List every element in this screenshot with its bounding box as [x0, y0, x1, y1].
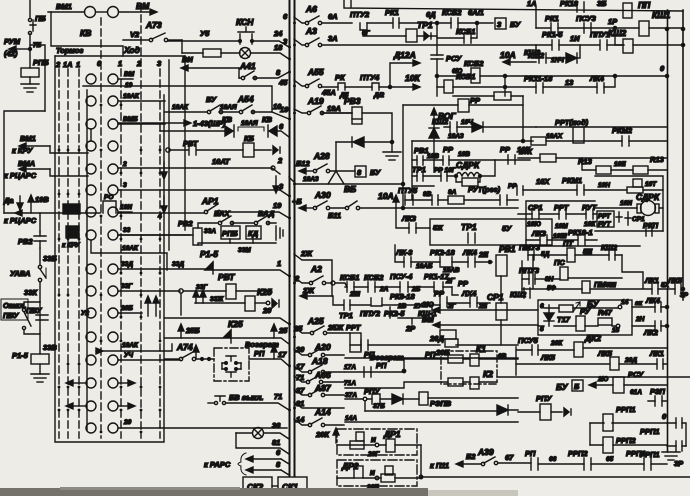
relay РВ2 [193, 228, 202, 245]
svg-text:33А: 33А [204, 228, 216, 235]
svg-text:24: 24 [273, 29, 283, 38]
box СК1 [278, 477, 307, 494]
svg-text:РК18-1: РК18-1 [568, 228, 593, 237]
contact ЛК4 [597, 83, 604, 93]
wire 14А row [345, 421, 518, 423]
contact КСБ2 [368, 282, 375, 292]
svg-text:А2: А2 [310, 264, 322, 274]
relay СР1 [496, 303, 507, 320]
switch А28 [313, 164, 355, 173]
svg-text:ТР1: ТР1 [339, 311, 353, 320]
wire [667, 423, 686, 446]
contact РКП [646, 226, 652, 236]
svg-text:19: 19 [280, 105, 289, 114]
svg-text:Б: Б [574, 382, 580, 391]
svg-text:3: 3 [123, 182, 127, 189]
svg-text:10А: 10А [500, 50, 516, 60]
contact ППУ3 [529, 274, 535, 284]
svg-text:РР: РР [434, 289, 445, 298]
svg-text:5Ш: 5Ш [606, 282, 617, 289]
svg-text:10АТ: 10АТ [212, 157, 231, 166]
box РВ1 left edge [412, 141, 434, 196]
svg-text:10АБ: 10АБ [416, 263, 433, 270]
diode [472, 122, 536, 132]
relay ПС [560, 267, 568, 280]
svg-text:К2: К2 [483, 369, 493, 379]
contact ЛХ4 [470, 297, 477, 307]
svg-text:2: 2 [277, 156, 283, 165]
svg-text:1А: 1А [527, 0, 537, 8]
capacitor РСУ [431, 55, 443, 59]
svg-text:(42): (42) [4, 49, 18, 58]
motor СДРК [595, 201, 663, 216]
contact ЛК1 [657, 359, 663, 369]
svg-text:+Б: +Б [292, 197, 302, 206]
svg-text:КСБ1: КСБ1 [340, 273, 359, 282]
label Откл. [1, 299, 28, 320]
svg-text:А30: А30 [314, 190, 331, 200]
contact ЛК2 [655, 321, 661, 331]
svg-text:РК8-18: РК8-18 [390, 292, 415, 301]
svg-text:КД: КД [248, 229, 259, 238]
svg-text:10АК: 10АК [123, 93, 140, 100]
svg-text:РП: РП [254, 349, 265, 358]
box КВ [51, 12, 123, 56]
arrow up 25Б [178, 324, 184, 338]
node [613, 74, 616, 77]
contact КВ arc 1 [160, 125, 234, 137]
svg-text:25: 25 [293, 324, 303, 333]
diode [497, 405, 508, 415]
contact РУТ [586, 209, 593, 219]
box 3 БУ [495, 18, 506, 29]
svg-text:КСБ1: КСБ1 [456, 72, 475, 81]
arrow Б12 [299, 168, 313, 174]
wire к П11 row [421, 476, 690, 478]
svg-text:к КРУ: к КРУ [12, 146, 33, 155]
relay ДР2 [354, 466, 363, 478]
relay РРП2 [603, 437, 613, 453]
node 6Д [435, 21, 438, 24]
diode up [429, 128, 439, 138]
wire [399, 22, 451, 24]
svg-text:10А: 10А [378, 191, 394, 201]
svg-text:РКМ2: РКМ2 [612, 126, 633, 135]
svg-text:ЛК5: ЛК5 [597, 349, 613, 358]
svg-text:РУТ: РУТ [598, 221, 611, 228]
switch А14 row [294, 418, 344, 427]
wire 33Ж row [195, 302, 245, 304]
svg-text:Ход: Ход [123, 45, 140, 55]
arrow left row406 [66, 403, 86, 409]
svg-text:К1: К1 [476, 344, 486, 354]
arrow up 17 [271, 345, 277, 359]
pushbutton КСН [238, 27, 254, 44]
arrow up pair 20Б [145, 296, 159, 316]
svg-text:25Ж: 25Ж [327, 323, 344, 332]
svg-text:вк: вк [635, 300, 643, 307]
svg-text:КВ: КВ [80, 28, 91, 38]
svg-text:13: 13 [565, 78, 574, 87]
svg-text:А37: А37 [314, 383, 332, 393]
svg-text:2А: 2А [379, 286, 389, 293]
svg-text:17А: 17А [344, 364, 356, 371]
relay КБ [243, 143, 254, 157]
contact ПМУ3 [528, 250, 534, 260]
svg-text:А55: А55 [307, 67, 324, 77]
svg-text:10А3: 10А3 [303, 176, 319, 183]
contact РРП2 [584, 458, 591, 470]
box РРТ РУТ [597, 211, 614, 227]
dark label к КРУ [66, 226, 79, 238]
svg-text:А73: А73 [145, 20, 162, 30]
arrow 20К up [333, 428, 339, 443]
arrow к П11 [456, 461, 463, 467]
svg-text:2Г: 2Г [447, 303, 457, 310]
svg-text:5У: 5У [502, 224, 512, 233]
bracket РК2-5 КШ-1 [390, 307, 432, 324]
wire top link [595, 176, 663, 231]
svg-text:33Д: 33Д [172, 261, 184, 268]
svg-text:ВАХ: ВАХ [214, 209, 231, 218]
svg-text:к П11: к П11 [430, 461, 449, 470]
svg-text:3А: 3А [328, 34, 338, 43]
contact КВ arc 2 [268, 125, 277, 137]
contact СР1 [532, 209, 539, 219]
wire КШ2 row [536, 45, 539, 58]
svg-text:33К: 33К [24, 288, 38, 297]
relay РПУ [540, 404, 551, 420]
contact РО [103, 201, 116, 213]
contact РРП1 [644, 458, 651, 470]
node [479, 175, 482, 178]
wire РК1 ПСУ3 row [536, 27, 683, 29]
arrow right row406 [118, 403, 135, 409]
resistor [559, 305, 573, 312]
svg-text:РК1-5: РК1-5 [542, 30, 563, 39]
wire diode row [336, 141, 392, 143]
svg-text:10М: 10М [555, 223, 568, 230]
wire ЛК-3 row [395, 245, 492, 262]
svg-text:ЛК1: ЛК1 [644, 276, 659, 285]
svg-text:СР1: СР1 [487, 292, 504, 302]
block [350, 432, 364, 449]
contact РК1-17 [434, 282, 443, 292]
svg-text:ДР1: ДР1 [383, 429, 401, 439]
svg-text:2: 2 [55, 60, 61, 69]
svg-text:У2: У2 [81, 310, 89, 317]
ground [31, 374, 49, 382]
switch А37 row [294, 388, 344, 397]
switch А18 row [294, 365, 344, 374]
wire [345, 86, 372, 88]
wire РПУ row [345, 398, 518, 399]
wire [577, 45, 580, 58]
contact КШ2b [524, 288, 530, 298]
svg-text:1-43(ШР): 1-43(ШР) [193, 119, 226, 128]
svg-text:19В: 19В [35, 195, 49, 204]
contact ПСУ5 [532, 345, 538, 355]
svg-text:РСУ: РСУ [628, 370, 644, 379]
svg-text:20Г: 20Г [367, 451, 380, 458]
arrow 2Ю РСУ [589, 382, 613, 388]
svg-text:ЛК2: ЛК2 [643, 328, 659, 337]
wire left frame [4, 111, 45, 213]
svg-text:14: 14 [621, 299, 629, 306]
svg-text:2Е: 2Е [478, 303, 488, 310]
wire РСУ vertical [436, 23, 438, 96]
svg-text:РВТ: РВТ [218, 272, 235, 282]
svg-text:КСБ2: КСБ2 [364, 273, 384, 282]
arrow down node [273, 176, 279, 193]
wire coil row [412, 175, 456, 177]
arrow РАРС 6 [246, 456, 289, 464]
plug symbol [255, 299, 279, 308]
resistor [462, 178, 478, 186]
arrow down 19В [17, 196, 23, 210]
svg-text:2Ю: 2Ю [421, 300, 434, 309]
svg-text:20К: 20К [315, 430, 330, 439]
svg-text:ЛХ4: ЛХ4 [461, 289, 477, 298]
contact ЛК4 [655, 302, 661, 312]
svg-text:71А: 71А [344, 380, 356, 387]
contact КШ2 [539, 53, 546, 63]
wire [367, 22, 392, 24]
svg-text:33Г: 33Г [121, 283, 133, 290]
resistor R13 [596, 166, 611, 174]
svg-text:2Ж: 2Ж [302, 286, 315, 295]
box СР1 РРТ РУТ cluster [526, 201, 640, 246]
relay ПМ [582, 281, 590, 293]
wire inner [538, 308, 618, 326]
svg-text:РВ2: РВ2 [178, 219, 193, 228]
svg-text:1И: 1И [570, 34, 580, 43]
svg-text:РУТ: РУТ [582, 203, 598, 212]
wire 81 row [294, 402, 344, 408]
node 6А/1 [475, 21, 478, 24]
svg-text:10К: 10К [519, 147, 533, 156]
flag contact Р1-5 [205, 262, 213, 274]
box ДР2 [337, 460, 417, 486]
svg-text:65: 65 [606, 456, 614, 463]
wire [213, 270, 289, 276]
wire long row [497, 376, 690, 378]
svg-text:ПСУ5: ПСУ5 [518, 336, 539, 345]
svg-text:10АК: 10АК [122, 342, 139, 349]
svg-text:ЛК4: ЛК4 [645, 296, 661, 305]
svg-text:10Т: 10Т [645, 181, 657, 188]
relay РВ1 [496, 255, 507, 276]
svg-text:Б12: Б12 [296, 159, 310, 168]
wire к РЦАРС [4, 210, 100, 216]
relay КШ2 [623, 39, 633, 53]
svg-text:БУ: БУ [556, 382, 569, 392]
bus line left [289, 0, 291, 477]
arrow Д12А [390, 60, 420, 86]
wire [500, 320, 502, 345]
wire lower 33М [230, 239, 253, 243]
contact row y124 [86, 119, 165, 129]
wire ЛК3 row [396, 208, 430, 228]
svg-text:10АК: 10АК [172, 104, 189, 111]
relay К25 [245, 296, 255, 311]
controller right edge upper [184, 56, 186, 230]
svg-text:71: 71 [296, 373, 304, 382]
svg-text:ПСУ3: ПСУ3 [576, 14, 597, 23]
svg-text:СДРК: СДРК [456, 160, 480, 170]
contact РР 10К [508, 155, 515, 164]
switch А74 [165, 345, 214, 361]
contact РК18 [577, 2, 584, 12]
contact ЛК3 [540, 235, 547, 245]
svg-text:ЛК-3: ЛК-3 [395, 248, 413, 257]
svg-text:3Р: 3Р [680, 292, 689, 299]
wire КСН row [168, 41, 289, 47]
wire КШ2 row2 [444, 126, 472, 128]
switch А2 row [294, 276, 347, 287]
svg-text:А20: А20 [314, 342, 331, 352]
svg-text:РВ2: РВ2 [18, 237, 33, 246]
contact УАВА [38, 265, 46, 281]
wire [29, 49, 31, 68]
wire [516, 347, 574, 375]
wire РРП2 drop [589, 423, 591, 445]
arrow left row383 [66, 380, 86, 386]
resistor R47 [598, 318, 612, 325]
relay К1 [470, 354, 479, 366]
relay 5Е [567, 248, 575, 262]
resistor РПБ [21, 68, 39, 77]
svg-text:2Г: 2Г [445, 276, 455, 285]
svg-text:1: 1 [76, 60, 80, 69]
svg-text:66: 66 [549, 456, 557, 463]
ground [383, 152, 401, 160]
switch А73 [123, 33, 182, 42]
contact РВТ [189, 145, 196, 155]
wire [583, 347, 667, 349]
capacitor [616, 212, 622, 222]
svg-text:9В: 9В [423, 191, 432, 198]
svg-text:10К: 10К [405, 73, 420, 83]
svg-text:РУМ: РУМ [4, 37, 21, 46]
svg-text:10В: 10В [458, 151, 470, 158]
svg-text:20К: 20К [550, 340, 563, 347]
wire [607, 44, 683, 46]
svg-text:РК11-18: РК11-18 [524, 74, 553, 83]
svg-text:РСУ: РСУ [446, 54, 462, 63]
resistor 9А [448, 196, 464, 204]
wire top-left feed [29, 0, 31, 18]
wire РРП2 row [590, 444, 667, 446]
switch А6 row [294, 16, 352, 25]
node 1Р [613, 26, 616, 29]
relay ДР1 [386, 439, 395, 452]
box СК2 [243, 477, 272, 494]
wire lower caps row [526, 239, 597, 241]
contact РРП1 top [676, 418, 682, 428]
arrow РАРС 8 [246, 467, 289, 475]
switch А20 row [294, 348, 344, 357]
svg-text:R13: R13 [578, 157, 593, 166]
wire РВ1 row [412, 159, 530, 161]
svg-text:КСБ1: КСБ1 [456, 27, 475, 36]
contact ЛК-3 [404, 257, 411, 267]
lamp [253, 428, 264, 439]
svg-text:РР: РР [500, 145, 511, 154]
relay ПП [623, 3, 632, 18]
svg-text:к РЦАРС: к РЦАРС [4, 171, 37, 180]
resistor [494, 92, 511, 100]
wire 10АК loop [91, 241, 167, 270]
resistor [203, 49, 221, 57]
svg-text:Р1-5: Р1-5 [12, 351, 29, 360]
svg-text:А6: А6 [305, 4, 317, 14]
arrow 2Ю [433, 307, 538, 313]
switch А55 row [294, 79, 338, 88]
arrow up 25 [271, 324, 277, 338]
svg-text:ВУ: ВУ [206, 95, 217, 104]
contact РК1-5 [552, 40, 559, 50]
block tip [627, 179, 643, 193]
wire [458, 22, 493, 24]
contact row y269 [86, 264, 205, 274]
link wire [272, 485, 278, 487]
svg-text:67: 67 [505, 453, 514, 462]
svg-text:ПП: ПП [638, 0, 651, 10]
wire [648, 400, 667, 402]
svg-text:Р1-5: Р1-5 [200, 249, 218, 259]
box ТР1 5У [430, 219, 552, 245]
resistor Р1-5 [31, 354, 49, 364]
switch ВУ [207, 105, 222, 114]
wire lower РПУ [365, 410, 518, 411]
svg-text:К25: К25 [257, 287, 272, 297]
capacitor РВ2 [34, 232, 46, 248]
contact circle [85, 7, 96, 18]
svg-text:5: 5 [540, 326, 544, 333]
svg-text:РРП2: РРП2 [616, 436, 636, 445]
arrow down col3 [161, 196, 167, 213]
relay ЛК5 [610, 357, 619, 370]
svg-text:И: И [370, 470, 375, 477]
svg-text:ППУ1: ППУ1 [590, 30, 610, 39]
wire row 17 [249, 359, 289, 366]
contact row y101 [86, 96, 165, 106]
wire ППУ2 row [333, 296, 490, 305]
svg-text:РР: РР [458, 279, 469, 288]
svg-text:10Ю: 10Ю [527, 221, 541, 228]
relay ТР1 [406, 29, 417, 42]
svg-text:ПСУ-4: ПСУ-4 [390, 272, 413, 281]
contact row y406 [86, 401, 118, 411]
svg-text:1: 1 [277, 259, 281, 268]
relay КД [246, 226, 261, 239]
node [435, 74, 438, 77]
svg-text:КВ: КВ [262, 115, 273, 124]
pushbutton ПБ [28, 18, 36, 48]
contact КСБ1 [347, 282, 354, 292]
wire 10АК lower [96, 344, 172, 354]
svg-text:ПТУ4: ПТУ4 [360, 73, 380, 82]
wire РВ1 drop [500, 276, 502, 303]
svg-text:ВАД: ВАД [258, 209, 275, 218]
plug [424, 32, 429, 40]
wire [518, 411, 562, 413]
svg-text:61А: 61А [630, 389, 642, 396]
svg-text:РПБ: РПБ [33, 58, 49, 67]
svg-text:14А: 14А [345, 415, 357, 422]
svg-text:А3: А3 [305, 26, 317, 36]
